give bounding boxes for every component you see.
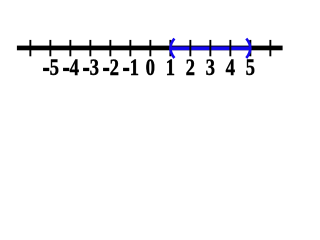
tick -5 <box>49 40 51 56</box>
number line diagram: open interval (1,5) highlighted in blue <box>0 0 300 100</box>
tick 1 <box>169 40 171 56</box>
svg-text:0: 0 <box>146 54 155 81</box>
svg-text:1: 1 <box>130 54 139 81</box>
minus sign of label -1 <box>123 68 129 71</box>
axis number labels <box>50 54 255 81</box>
tick 3 <box>209 40 211 56</box>
tick -2 <box>109 40 111 56</box>
svg-text:4: 4 <box>226 54 236 81</box>
minus sign of label -2 <box>103 68 109 71</box>
tick 5 <box>249 40 251 56</box>
svg-text:2: 2 <box>186 54 195 81</box>
minus sign of label -3 <box>83 68 89 71</box>
svg-text:3: 3 <box>206 54 215 81</box>
tick -1 <box>129 40 131 56</box>
tick -4 <box>69 40 71 56</box>
svg-text:2: 2 <box>110 54 119 81</box>
svg-text:1: 1 <box>166 54 175 81</box>
svg-text:4: 4 <box>70 54 80 81</box>
open-interval left parenthesis at 1 <box>170 39 174 58</box>
open-interval right parenthesis at 5 <box>246 39 250 58</box>
svg-text:5: 5 <box>246 54 255 81</box>
tick 0 <box>149 40 151 56</box>
minus sign of label -5 <box>43 68 49 71</box>
tick -6 <box>29 40 31 56</box>
tick 4 <box>229 40 231 56</box>
svg-text:3: 3 <box>90 54 99 81</box>
number line axis <box>17 46 283 51</box>
minus sign of label -4 <box>63 68 69 71</box>
tick 2 <box>189 40 191 56</box>
blue interval segment from 1 to 5 <box>171 47 249 51</box>
svg-text:5: 5 <box>50 54 59 81</box>
tick -3 <box>89 40 91 56</box>
tick 6 <box>269 40 271 56</box>
